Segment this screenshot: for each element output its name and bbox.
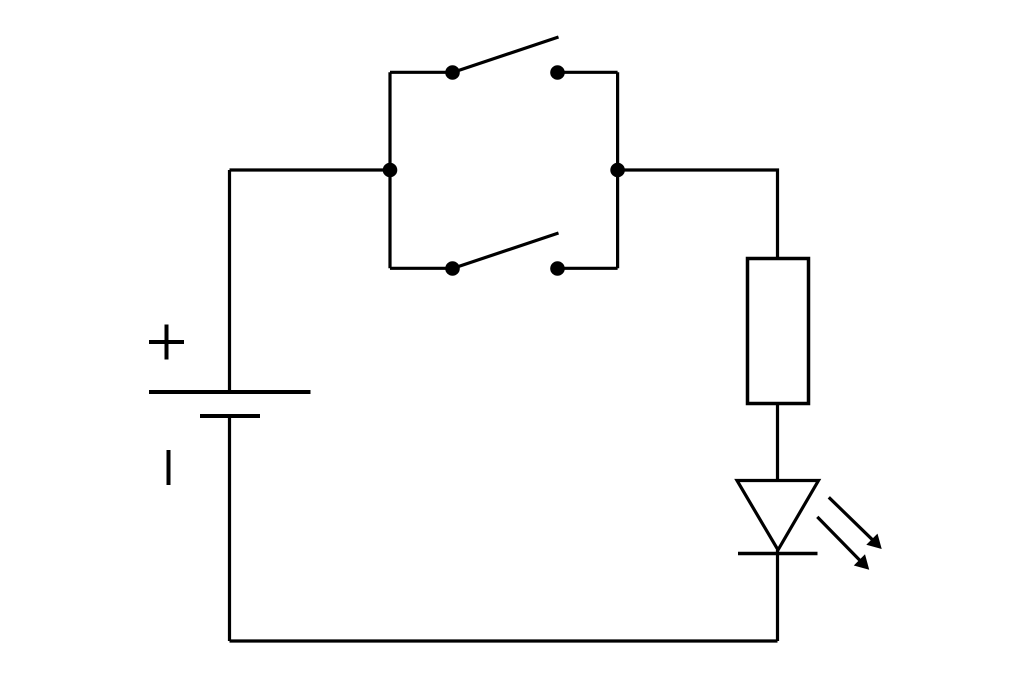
wire: battery negative lead [228,416,231,641]
wire: S1 right lead [558,71,618,74]
wire: S2 right lead [558,267,618,270]
wire: LED cathode down to bottom return [776,550,779,641]
wire: right branch vertical of switch loop [616,72,619,268]
wire: resistor bottom to LED anode [776,404,779,481]
LED D1 (diode symbol) [737,481,819,554]
wire: node B to resistor top [618,170,778,259]
node A: switch network input junction [383,163,398,178]
battery + polarity label [149,325,184,360]
LED emission arrow 1 (upper) [829,497,881,548]
S1 right contact dot [550,65,565,80]
switch S1 (top, open) [390,37,618,80]
S2 lever arm (open) [453,233,559,269]
wire: battery positive lead up to main node line [228,170,231,392]
wire: battery + to switch network input [230,168,391,171]
wire: bottom return to battery - [230,639,778,642]
wire: S2 left lead [390,267,453,270]
S2 left contact dot [445,261,460,276]
battery - polarity label (rotated bar) [167,450,171,485]
battery negative plate (short) [200,414,260,418]
S1 lever arm (open) [453,37,559,73]
wire: left branch vertical of switch loop [388,72,391,268]
wire: S1 left lead [390,71,453,74]
resistor R1 (box symbol) [748,259,809,404]
LED emission arrow 2 (lower) [817,517,868,569]
node B: switch network output junction [610,163,625,178]
LED anode triangle [737,481,819,551]
S2 right contact dot [550,261,565,276]
S1 left contact dot [445,65,460,80]
LED cathode bar [738,552,818,556]
switch S2 (bottom, open) [390,233,618,276]
battery BT1 [149,392,311,416]
battery positive plate (long) [149,390,311,394]
